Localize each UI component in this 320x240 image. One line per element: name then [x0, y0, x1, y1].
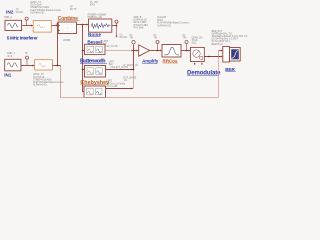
modulator block (orange) IN1	[35, 60, 53, 70]
filter block RRCos	[162, 45, 181, 58]
annotation QPSK settings below IN1 modulator	[33, 74, 64, 86]
annotation AMP settings	[133, 16, 148, 29]
filter block Chebyshev	[84, 86, 106, 98]
annotation BER settings	[212, 31, 248, 46]
svg-text:STREP=GUI ARG: STREP=GUI ARG	[33, 78, 52, 81]
test point TP2 on Noise output	[115, 20, 118, 38]
svg-text:TPt: TPt	[154, 37, 158, 40]
svg-text:IF=2: IF=2	[7, 56, 12, 58]
test point TP5	[185, 40, 188, 51]
svg-text:TP: TP	[25, 53, 28, 55]
svg-text:_Rx: _Rx	[122, 80, 128, 82]
annotation QPSK_RX	[192, 37, 203, 44]
wire bus branch to Chebyshev	[82, 91, 84, 93]
svg-text:Noise: Noise	[88, 32, 102, 37]
svg-text:GAIN=10 dB: GAIN=10 dB	[133, 19, 147, 22]
label Amplify	[142, 59, 159, 64]
wire modulator to Combine	[51, 25, 57, 27]
svg-text:IN2: IN2	[6, 9, 14, 15]
svg-text:5 MHz Interferer: 5 MHz Interferer	[7, 35, 38, 40]
svg-text:Bessel: Bessel	[87, 40, 102, 45]
annotation PL_IN1	[90, 2, 98, 7]
wire into amplifier	[134, 50, 138, 52]
svg-text:ALPHA=0.35: ALPHA=0.35	[33, 84, 47, 87]
wire Butterworth out	[106, 69, 133, 71]
filter block Butterworth	[85, 66, 106, 78]
svg-text:B=P3: B=P3	[157, 20, 163, 22]
svg-text:BER: BER	[225, 67, 235, 72]
svg-text:ID=IN2: ID=IN2	[16, 12, 24, 14]
svg-text:ID=IN1: ID=IN1	[120, 37, 128, 39]
svg-text:TPt: TPt	[130, 37, 134, 40]
svg-text:ID=TX: ID=TX	[70, 9, 77, 11]
svg-text:Amplify: Amplify	[142, 59, 159, 64]
wire Combine to Noise	[77, 24, 88, 26]
svg-text:COMB: COMB	[63, 40, 70, 42]
block BER display	[230, 48, 241, 62]
annotation Cx/ID=IN1	[120, 34, 128, 39]
svg-text:Butterworth: Butterworth	[80, 59, 105, 65]
wire amplifier to RRCos	[150, 50, 161, 52]
label RRCos	[163, 58, 178, 63]
svg-text:RRCos: RRCos	[163, 58, 178, 63]
source block IN2	[5, 20, 22, 30]
label Demodulate	[187, 70, 221, 76]
svg-text:RND_2: RND_2	[4, 17, 12, 19]
wire Demodulate to BER	[204, 56, 222, 58]
wire bus branch to Bessel	[82, 50, 85, 52]
wire IN1 riser up to Combine	[57, 24, 59, 66]
feedback wire bottom horizontal	[61, 97, 219, 99]
svg-text:TPt: TPt	[183, 37, 187, 40]
test point TP1 on IN2 wire	[25, 17, 28, 25]
wire selector vertical	[133, 44, 135, 69]
junction on Combine-Noise wire	[82, 24, 84, 26]
modulator block (orange) IN2	[33, 21, 51, 32]
source block IN1	[5, 59, 21, 71]
label BER	[225, 67, 235, 72]
svg-text:FLAT=FPxRat Raised Cosine x: FLAT=FPxRat Raised Cosine x	[157, 22, 190, 25]
label Chebyshev	[80, 80, 109, 86]
subsystem block Combine	[58, 22, 76, 34]
svg-text:TPxLExT_2xxTE: TPxLExT_2xxTE	[110, 67, 128, 69]
annotation LPF2	[107, 81, 126, 88]
svg-text:xT_2RxTE_Rx: xT_2RxTE_Rx	[123, 65, 139, 67]
svg-text:AMP_B: AMP_B	[133, 16, 141, 19]
label Noise	[88, 32, 102, 37]
svg-text:IF=2 MHz: IF=2 MHz	[133, 27, 144, 29]
svg-text:Chebyshev: Chebyshev	[80, 80, 109, 86]
wire IN2 source to modulator	[22, 25, 32, 27]
wire IN1 modulator out	[52, 65, 60, 67]
test point TP3 selector top	[132, 41, 135, 44]
svg-text:ALPHA=0.35: ALPHA=0.35	[30, 11, 44, 14]
wire IN1 source to modulator	[21, 65, 34, 67]
svg-text:FLET=FPxRat Raised Cosine: FLET=FPxRat Raised Cosine	[33, 81, 64, 84]
test point TP6 on IN1 wire	[25, 56, 28, 65]
svg-text:FPG=xx_2x N=5a: FPG=xx_2x N=5a	[107, 83, 126, 85]
svg-text:FLET=FPxRat Raised Cosine: FLET=FPxRat Raised Cosine	[30, 9, 61, 12]
svg-text:ch=2.1 dB: ch=2.1 dB	[107, 86, 118, 88]
wire Noise out to tap	[112, 25, 117, 27]
svg-text:Combine: Combine	[58, 16, 78, 22]
filter block Bessel	[85, 44, 106, 54]
svg-text:BER=0 0 0: BER=0 0 0	[212, 44, 224, 46]
annotation POWER (above Noise)	[88, 15, 107, 20]
block BER compare	[223, 47, 230, 63]
block Noise	[89, 19, 112, 32]
feedback wire left vertical	[60, 66, 62, 98]
annotation LPF1	[109, 62, 128, 69]
port tags below Demodulate	[194, 62, 196, 65]
annotation TP/ID=IN2	[16, 9, 24, 14]
wire Chebyshev out	[106, 88, 133, 90]
wire Bessel out (pale)	[105, 50, 133, 52]
svg-text:SNL/2ER=sRapath 8 13 1 RxT 0 0: SNL/2ER=sRapath 8 13 1 RxT 0 0	[212, 35, 248, 38]
block Demodulate	[190, 47, 204, 61]
svg-text:ID=x: ID=x	[90, 5, 96, 7]
annotation RRC settings	[157, 16, 190, 27]
svg-text:DLTS=TRprSrxt 1 0 2RxT: DLTS=TRprSrxt 1 0 2RxT	[212, 38, 239, 41]
wire reference into BER	[219, 50, 222, 52]
annotation tp tags row	[130, 35, 134, 40]
annotation QPSK_TX settings (top middle)	[30, 2, 61, 14]
wire bus branch to Butterworth	[82, 69, 85, 71]
svg-text:ALPHA=0.35: ALPHA=0.35	[157, 24, 171, 27]
junction IN1 branch	[57, 65, 59, 67]
svg-text:STREP=GUI ARG: STREP=GUI ARG	[30, 6, 49, 9]
test point TP4	[156, 40, 159, 51]
svg-text:IN1: IN1	[4, 73, 12, 78]
annotation RND_T	[7, 53, 15, 58]
wire RRCos to Demodulate	[181, 50, 189, 52]
label Butterworth	[80, 59, 107, 65]
amplifier triangle	[139, 45, 150, 56]
label Combine	[58, 16, 80, 22]
wire filter bus vertical	[82, 25, 84, 92]
annotation LPF0	[103, 41, 119, 48]
svg-text:0x2L: 0x2L	[192, 43, 198, 45]
svg-text:PLA2UP: PLA2UP	[157, 16, 166, 19]
label Bessel	[87, 40, 102, 45]
annotation TP/ID=TX	[70, 7, 77, 12]
feedback wire right vertical	[218, 51, 220, 98]
